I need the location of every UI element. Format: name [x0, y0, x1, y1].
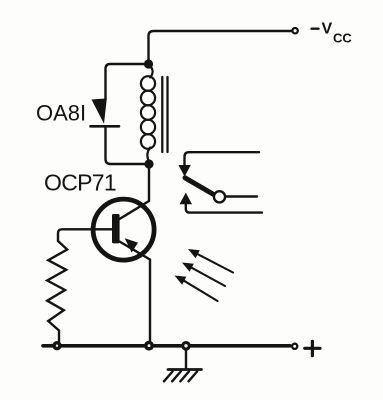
relay contact top line: [185, 152, 260, 166]
relay core lines: [162, 77, 167, 152]
wire diode branch bottom: [106, 127, 146, 165]
wire diode branch top: [106, 64, 145, 99]
terminal -Vcc: [292, 28, 297, 33]
junction dot coil top: [144, 59, 153, 68]
relay contact middle line: [226, 195, 257, 197]
contact arrow up: [180, 193, 193, 205]
transistor Q1 OCP71 body: [93, 199, 154, 260]
junction dot rail ground: [181, 341, 191, 351]
wire top supply: [149, 31, 293, 64]
relay contact lever: [185, 178, 215, 195]
wire collector: [120, 164, 150, 219]
diode OA81 triangle: [92, 98, 107, 123]
emitter arrowhead: [125, 238, 138, 252]
terminal plus: [292, 344, 297, 349]
dot pinhole rail center: [148, 344, 151, 347]
svg-text:OCP71: OCP71: [44, 170, 116, 196]
transistor base bar: [112, 214, 120, 243]
contact pivot circle: [214, 191, 225, 202]
junction dot rail left: [52, 341, 61, 350]
plus sign: [305, 341, 320, 355]
light arrow 1 shaft: [196, 253, 233, 272]
arrowhead light 1: [188, 249, 200, 258]
wire emitter: [120, 242, 151, 345]
ground stem: [185, 347, 187, 368]
wire base: [58, 229, 112, 241]
svg-text:V: V: [322, 21, 333, 38]
resistor R1: [47, 241, 67, 342]
ground hatching: [164, 372, 197, 382]
ground bar: [168, 368, 202, 371]
label -Vcc minus stroke: [312, 28, 319, 30]
inductor relay coil: [141, 65, 155, 162]
dot pinhole ground: [184, 344, 187, 347]
arrowhead light 2: [182, 263, 194, 272]
wire ground rail: [43, 344, 290, 348]
dot pinhole rail left: [56, 345, 58, 347]
svg-text:CC: CC: [333, 30, 352, 45]
arrowhead light 3: [175, 276, 187, 285]
light arrow 2 shaft: [190, 267, 225, 286]
contact arrow down: [178, 165, 190, 177]
junction dot rail center: [144, 341, 154, 351]
svg-text:OA8I: OA8I: [36, 101, 86, 126]
light arrow 3 shaft: [183, 280, 218, 301]
diode OA81 cathode bar: [91, 125, 120, 128]
junction dot coil bottom: [144, 159, 153, 168]
relay contact bottom line: [186, 204, 262, 213]
